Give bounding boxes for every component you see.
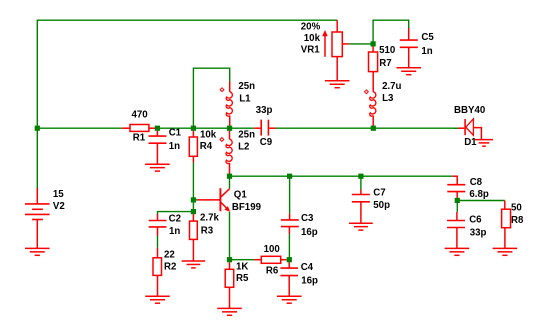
node L3 bottom (371, 126, 376, 131)
svg-text:C1: C1 (169, 128, 182, 139)
resistor R1 (122, 127, 130, 129)
polarity diamond L1 (220, 88, 224, 92)
svg-text:R6: R6 (266, 265, 279, 276)
node R6-C3-C4 (287, 257, 292, 262)
wire C8 node down to C6 (456, 201, 458, 212)
node C7 top (358, 174, 363, 179)
wire lower rail (230, 175, 453, 177)
resistor R8 (504, 201, 506, 210)
ground below C4 (277, 295, 302, 297)
node left rail / mid rail (35, 126, 40, 131)
svg-text:100: 100 (264, 244, 280, 255)
wire C8 node to R8 (457, 200, 505, 202)
inductor L3 (370, 92, 376, 116)
capacitor C4 (288, 262, 290, 268)
svg-text:L1: L1 (239, 93, 251, 104)
inductor L1 (229, 81, 231, 91)
wire left rail (36, 20, 38, 189)
svg-text:16p: 16p (301, 227, 318, 238)
svg-text:D1: D1 (464, 137, 477, 148)
capacitor C1 (156, 131, 158, 136)
ground below R5 (217, 307, 242, 309)
svg-text:33p: 33p (470, 227, 487, 238)
svg-text:1K: 1K (236, 261, 248, 272)
svg-text:50: 50 (511, 203, 522, 214)
svg-text:20%: 20% (301, 22, 321, 33)
svg-text:1n: 1n (169, 226, 180, 237)
wire mid rail to varactor segment (276, 127, 459, 129)
capacitor C8 (453, 175, 457, 177)
wire C3 bottom link (288, 234, 290, 260)
node C2 branch (191, 209, 196, 214)
capacitor C6 (447, 220, 465, 222)
node C3 top (287, 174, 292, 179)
svg-text:R8: R8 (511, 215, 524, 226)
capacitor C2 (157, 214, 159, 220)
wire top rail (37, 19, 337, 21)
ground below C6 (445, 247, 470, 249)
svg-text:L2: L2 (238, 141, 249, 152)
svg-text:16p: 16p (301, 275, 318, 286)
svg-text:C3: C3 (301, 213, 314, 224)
svg-text:10k: 10k (200, 129, 217, 140)
svg-text:R3: R3 (201, 226, 214, 237)
polarity diamond L3 (365, 90, 369, 94)
resistor R4 (192, 131, 194, 137)
node Q1 base (191, 197, 196, 202)
transistor Q1 (197, 199, 219, 201)
varactor diode D1 (458, 127, 464, 129)
wire base node to Q1 base (193, 199, 197, 201)
ground below R2 (145, 295, 170, 297)
svg-text:510: 510 (379, 45, 395, 56)
svg-text:VR1: VR1 (301, 44, 320, 55)
wire VR1 wiper to node (349, 43, 373, 45)
svg-text:470: 470 (132, 110, 148, 121)
svg-text:2.7k: 2.7k (200, 213, 219, 224)
svg-text:C9: C9 (260, 137, 273, 148)
battery V2 (36, 188, 38, 204)
svg-text:C5: C5 (421, 32, 434, 43)
node L1-L2 (227, 126, 232, 131)
ground below VR1 (325, 80, 350, 82)
svg-text:C6: C6 (469, 215, 482, 226)
node C8-C6-R8 (455, 198, 460, 203)
wire C3 top link (289, 176, 291, 213)
svg-text:R4: R4 (200, 141, 213, 152)
wire C7 link (360, 176, 362, 189)
emitter arrowhead Q1 (225, 207, 229, 211)
svg-text:10k: 10k (304, 33, 321, 44)
ground below C7 (349, 222, 373, 224)
svg-text:15: 15 (53, 189, 64, 200)
svg-text:Q1: Q1 (234, 189, 248, 200)
wire mid rail left segment (37, 127, 121, 129)
wire mid rail right segment (157, 127, 254, 129)
ground below C1 (145, 163, 170, 165)
svg-text:BBY40: BBY40 (454, 105, 485, 116)
node R4 top (191, 126, 196, 131)
ground at D1 (475, 139, 493, 141)
svg-text:BF199: BF199 (232, 202, 262, 213)
capacitor C7 (360, 190, 362, 195)
svg-text:C2: C2 (169, 214, 181, 225)
svg-text:50p: 50p (373, 200, 390, 211)
svg-text:1n: 1n (421, 46, 432, 57)
capacitor C9 (254, 127, 260, 129)
svg-text:6.8p: 6.8p (469, 189, 488, 200)
resistor R3 (192, 214, 194, 221)
ground below V2 (25, 247, 50, 249)
svg-text:R5: R5 (236, 273, 249, 284)
wire L1 top loop (193, 68, 229, 128)
ground below R3 (182, 260, 206, 262)
svg-text:C8: C8 (470, 177, 483, 188)
node collector / lower rail (227, 174, 232, 179)
inductor L2 (229, 131, 231, 140)
svg-text:1n: 1n (169, 141, 180, 152)
svg-text:22: 22 (164, 249, 175, 260)
wire R4 bottom to base node to C2 node (192, 162, 194, 211)
wire D1 rail end (453, 127, 458, 129)
resistor R2 (157, 248, 159, 258)
wire node up to top right rail (373, 20, 409, 44)
svg-text:R2: R2 (164, 262, 176, 273)
node emitter / R5 (227, 257, 232, 262)
ground below R8 (493, 247, 518, 249)
wire collector node down (229, 176, 231, 188)
svg-text:C7: C7 (373, 188, 385, 199)
ground below C5 (396, 67, 421, 69)
potentiometer VR1 (336, 20, 338, 32)
polarity diamond L2 (220, 138, 224, 142)
wire C2 branch horizontal (158, 212, 194, 215)
svg-text:C4: C4 (301, 262, 314, 273)
svg-text:R1: R1 (133, 133, 146, 144)
svg-text:2.7u: 2.7u (382, 81, 401, 92)
wiper arrow VR1 (324, 35, 326, 57)
capacitor C5 (408, 28, 410, 40)
resistor R7 (372, 46, 374, 52)
resistor R5 (229, 262, 231, 269)
svg-text:V2: V2 (53, 201, 65, 212)
wire emitter rail to R6 (230, 259, 255, 261)
svg-text:R7: R7 (379, 58, 391, 69)
svg-text:25n: 25n (238, 130, 255, 141)
svg-text:L3: L3 (382, 93, 394, 104)
node R1-C1 (155, 126, 160, 131)
node VR1 wiper / R7 (371, 41, 376, 46)
wire C2 to R2 link (157, 236, 159, 248)
svg-text:33p: 33p (256, 105, 273, 116)
resistor R6 (254, 259, 261, 261)
svg-text:25n: 25n (238, 81, 255, 92)
wire emitter down to node (229, 212, 231, 260)
capacitor C3 (289, 214, 291, 220)
